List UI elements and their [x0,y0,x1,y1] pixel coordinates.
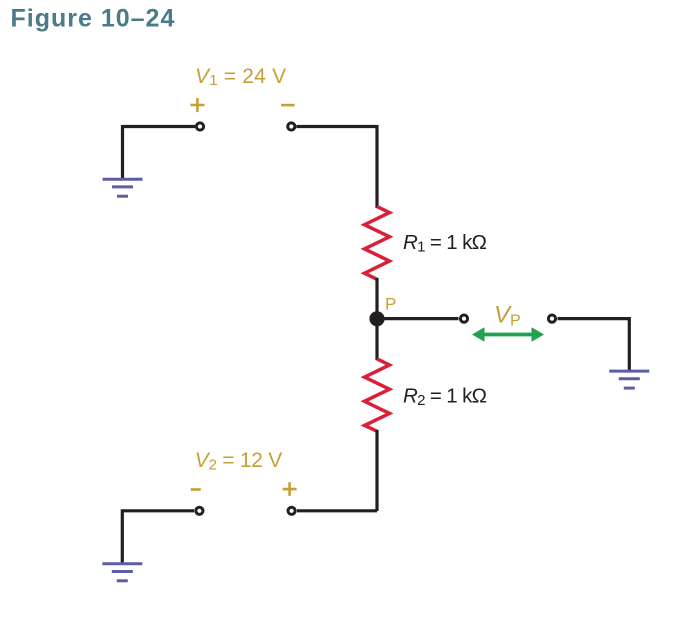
svg-text:R2 = 1 kΩ: R2 = 1 kΩ [403,385,487,410]
V2 minus sign [191,488,201,491]
svg-text:VP: VP [494,302,521,330]
terminal V2 - [196,507,203,514]
svg-text:P: P [385,295,396,314]
V1 plus sign [190,98,204,112]
terminal V1 - [288,123,295,130]
resistor R1 [365,207,390,280]
wire: node P to right terminal [377,317,459,320]
wire: from V1 minus terminal to top of main vertical [297,125,378,128]
svg-text:R1 = 1 kΩ: R1 = 1 kΩ [403,231,487,256]
wire: top-left horizontal [123,125,196,128]
wire: main vertical down to R1 [375,125,378,208]
svg-text:V2 = 12 V: V2 = 12 V [195,449,282,474]
ground (right) [609,371,649,388]
wire: right terminal to right vertical [558,317,630,320]
svg-text:Figure 10–24: Figure 10–24 [11,5,176,33]
green double arrow [472,327,544,341]
V2 plus sign [283,482,297,496]
V1 minus sign [281,104,295,107]
wire: bottom-left vertical to ground [121,509,124,564]
wire: bottom-left horizontal [122,509,194,512]
terminal V2 + [288,507,295,514]
wire: right vertical to ground [628,317,631,371]
terminal VP right [548,315,555,322]
wire: R1 bottom to node P [375,278,378,320]
resistor R2 [365,359,390,431]
wire: top-left vertical to ground [121,125,124,179]
wire: node P down to R2 [375,318,378,360]
terminal VP left [460,315,467,322]
terminal V1 + [196,123,203,130]
wire: R2 bottom to bottom horizontal [375,430,378,511]
wire: bottom horizontal to V2 plus terminal [297,509,377,512]
svg-text:V1 = 24 V: V1 = 24 V [195,65,286,89]
node P dot [369,311,384,326]
ground (bottom left) [102,564,142,581]
ground (top left) [103,179,143,196]
